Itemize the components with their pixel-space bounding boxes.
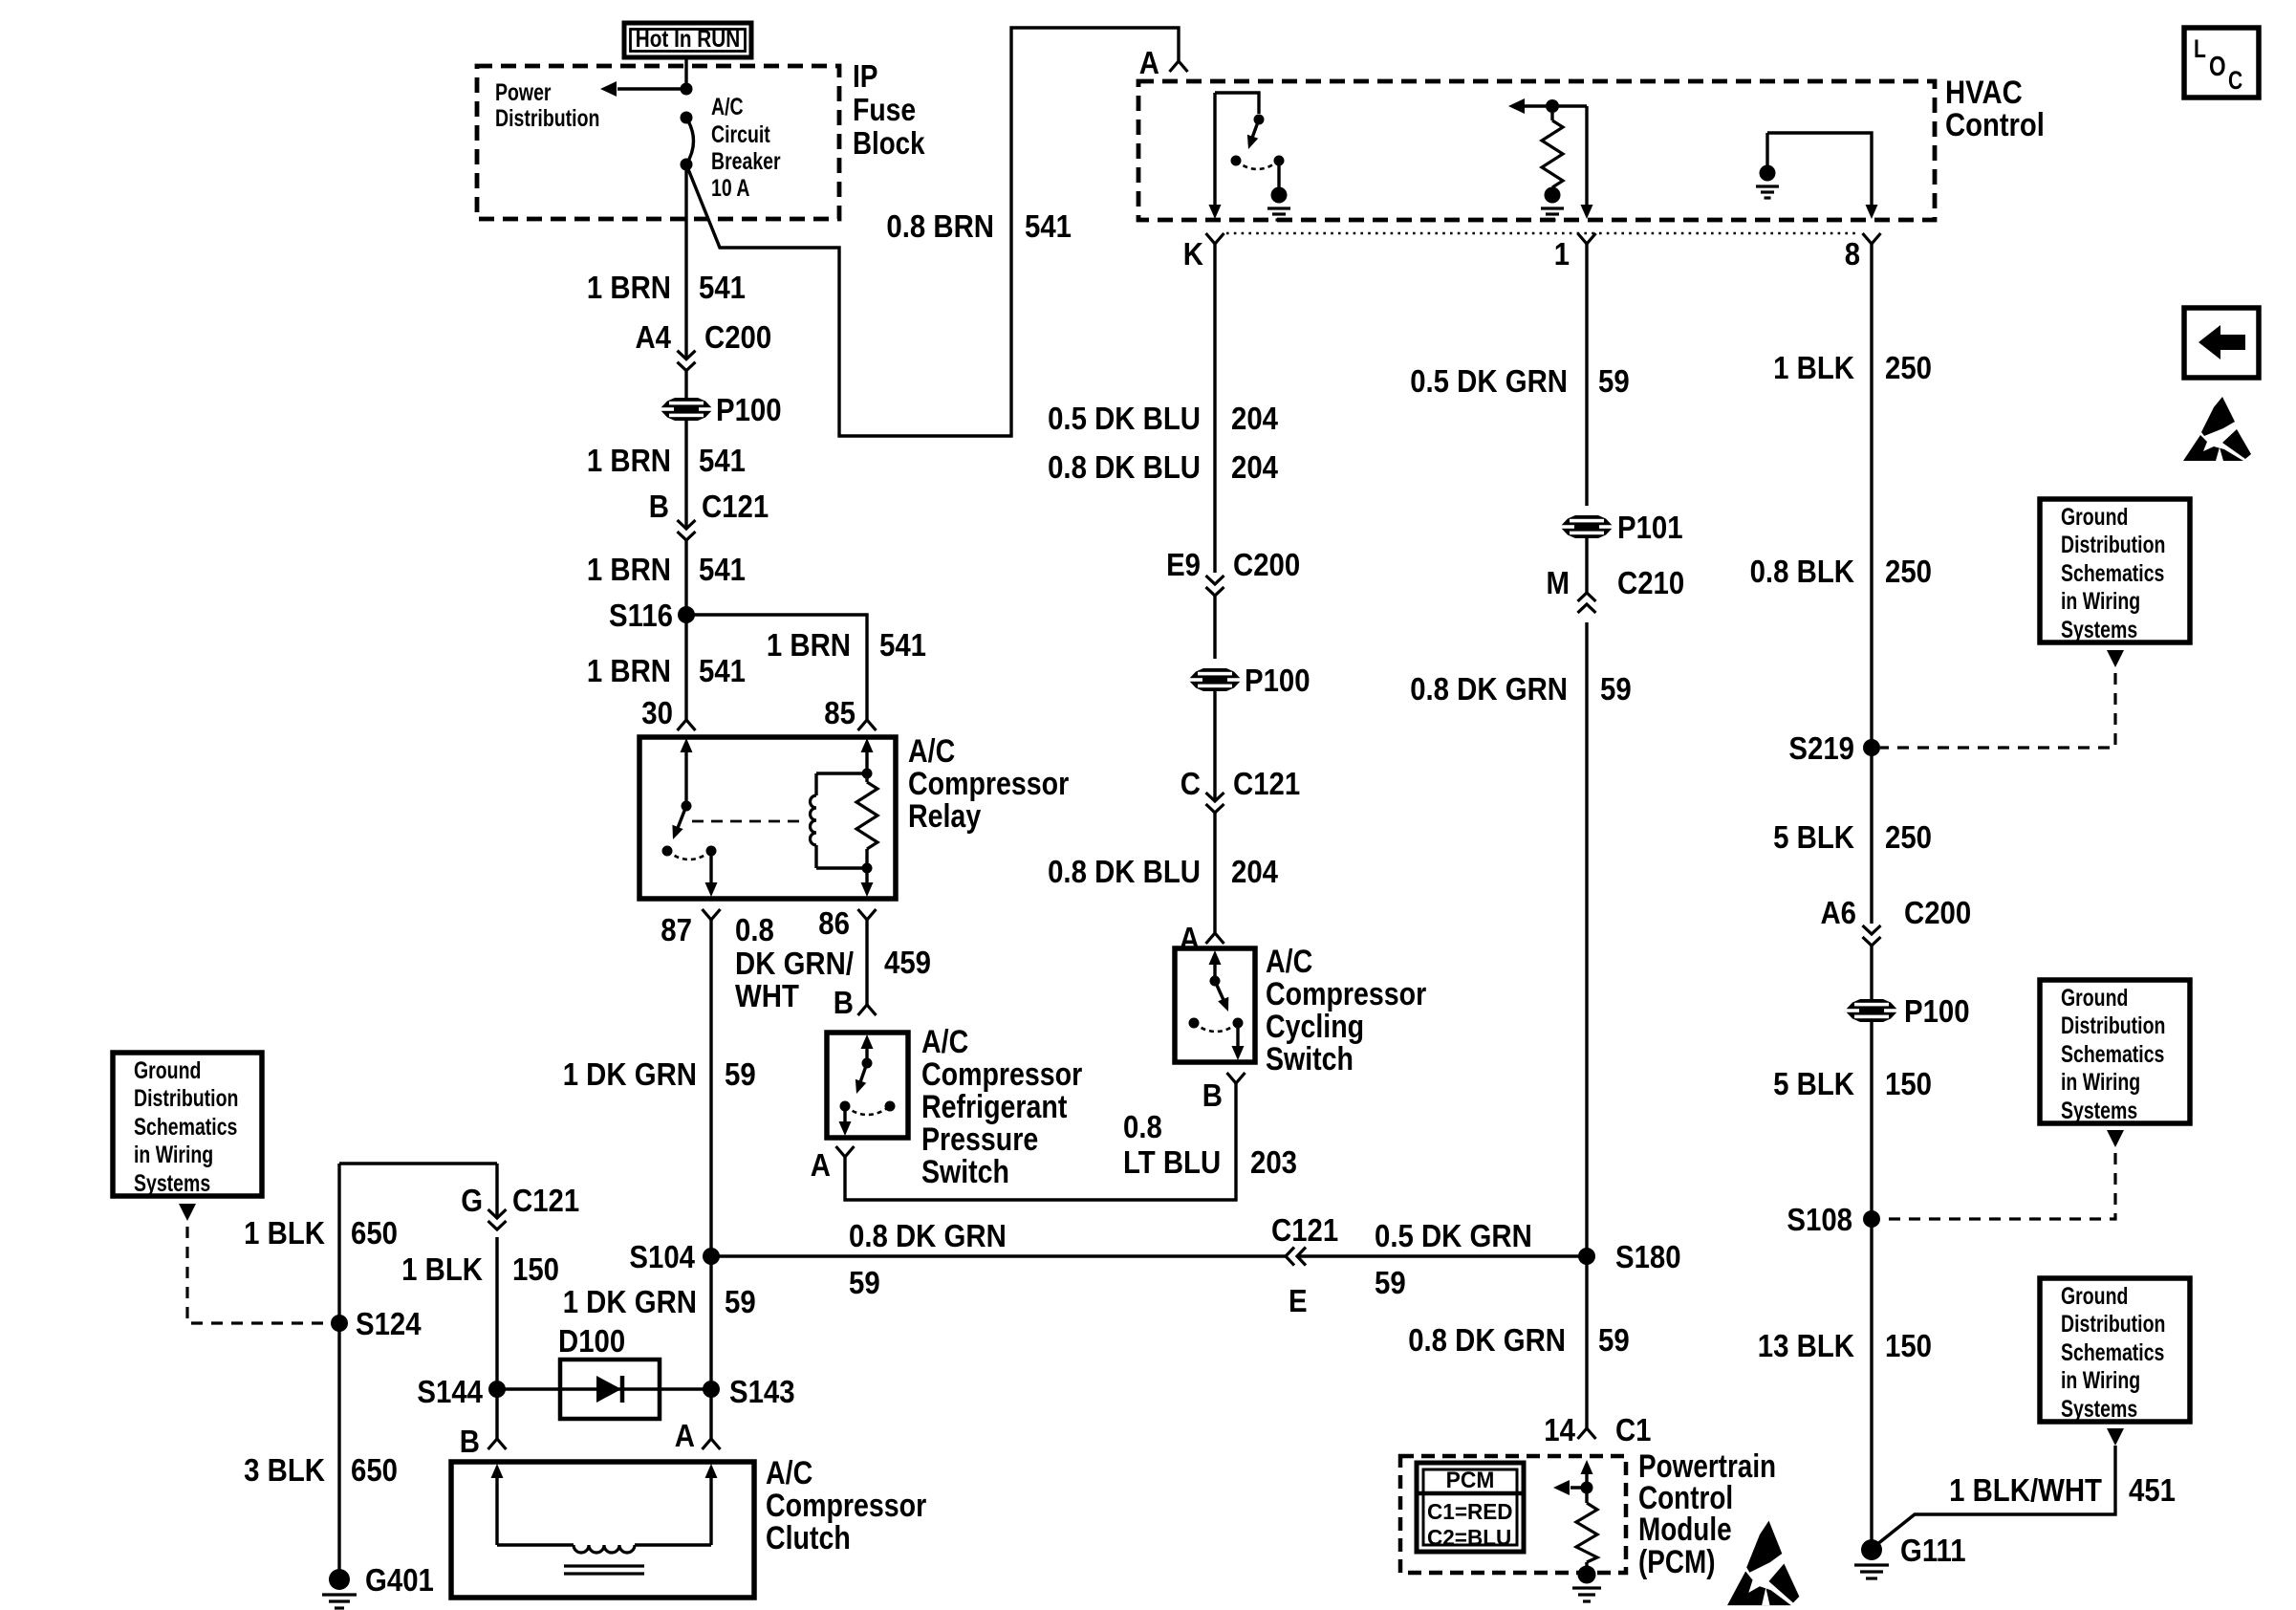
diode D100 symbol [596,1376,621,1403]
splice S143 [703,1381,720,1398]
svg-text:A/C: A/C [921,1024,968,1060]
svg-text:204: 204 [1231,401,1279,436]
splice S116 [678,606,695,623]
svg-text:in Wiring: in Wiring [2061,1069,2140,1096]
svg-text:150: 150 [1885,1328,1932,1363]
svg-text:P101: P101 [1617,510,1683,545]
svg-text:in Wiring: in Wiring [134,1142,213,1168]
PCM internal ground [1578,1566,1596,1584]
svg-text:250: 250 [1885,819,1932,855]
clutch internal: pin B lead [491,1464,504,1478]
svg-text:in Wiring: in Wiring [2061,1367,2140,1394]
wire: S144 to S143 through diode [497,1387,711,1390]
terminal: cycling switch pin B [1227,1073,1245,1083]
svg-text:C2=BLU: C2=BLU [1427,1525,1511,1550]
svg-text:(PCM): (PCM) [1638,1544,1716,1580]
svg-text:0.8 DK BLU: 0.8 DK BLU [1048,854,1201,889]
svg-text:C200: C200 [1233,547,1300,582]
svg-text:C121: C121 [512,1183,579,1218]
svg-text:C: C [2228,66,2242,95]
label box: Hot In RUN [624,23,751,57]
svg-text:Compressor: Compressor [766,1488,926,1524]
svg-text:A: A [811,1147,831,1183]
svg-text:G111: G111 [1900,1533,1966,1568]
svg-text:Systems: Systems [2061,1396,2137,1423]
svg-text:Schematics: Schematics [2061,1041,2164,1068]
splice S104 [703,1248,720,1265]
wire: 0.8 LT BLU 203 pressure switch A to cycling switch B [845,1083,1236,1200]
svg-text:0.5 DK BLU: 0.5 DK BLU [1048,401,1201,436]
svg-text:541: 541 [699,270,746,305]
relay internal: coil L1 [861,738,874,752]
HVAC internal: ground at pin 8 [1760,165,1776,182]
svg-text:204: 204 [1231,854,1279,889]
svg-text:WHT: WHT [735,978,799,1013]
svg-text:203: 203 [1250,1144,1297,1180]
wire: 0.8 DK GRN 59 down to S180 [1585,622,1588,1256]
svg-text:Pressure: Pressure [921,1121,1038,1158]
svg-text:C: C [1180,766,1201,801]
relay internal: pin 30 lead [681,738,693,752]
svg-text:0.8 DK BLU: 0.8 DK BLU [1048,449,1201,485]
terminal: relay pin 87 [703,909,721,920]
wire: HVAC pin K down to cycling switch A [1213,244,1216,573]
wire: arrow to Power Distribution [617,87,686,90]
HVAC internal ground symbol [1271,187,1288,204]
svg-text:B: B [460,1424,480,1459]
svg-text:0.8 BLK: 0.8 BLK [1750,554,1855,589]
relay internal: switch blade [678,806,686,828]
terminal: HVAC pin K [1206,233,1224,244]
svg-text:Compressor: Compressor [921,1056,1082,1093]
svg-text:C121: C121 [702,489,769,524]
svg-text:Ground: Ground [2061,985,2128,1012]
svg-text:C1: C1 [1615,1412,1652,1447]
splice S108 [1863,1210,1880,1228]
IP Fuse Block dashed box [477,66,839,219]
wire: HVAC pin 1 to P101 [1585,244,1588,506]
relay internal: contact gap dashed arc [667,851,711,859]
svg-text:S104: S104 [629,1239,695,1274]
svg-text:Ground: Ground [2061,1283,2128,1310]
svg-text:250: 250 [1885,350,1932,385]
wire: 1 BRN 541 to splice S116 [684,540,687,615]
pressure switch internal: dashed contact arc [845,1106,890,1115]
svg-text:0.8: 0.8 [1123,1109,1162,1144]
wire: S104 to S180 0.8/0.5 DK GRN 59 [711,1254,1286,1257]
svg-text:1 BRN: 1 BRN [587,270,671,305]
ESD symbol at PCM [1727,1521,1799,1605]
right Ground Distribution box 1 [2040,499,2190,642]
wire: Hot In RUN feed into IP fuse block [684,57,687,89]
right Ground Distribution box 2 [2040,980,2190,1123]
wire: S116 to relay pin 30 [684,615,687,720]
svg-text:S143: S143 [729,1374,795,1409]
svg-text:Circuit: Circuit [711,121,770,148]
svg-text:B: B [834,985,854,1020]
svg-text:Fuse: Fuse [853,92,916,127]
svg-text:Power: Power [495,79,552,106]
svg-text:Schematics: Schematics [2061,560,2164,587]
wire: 1 BRN 541 below P100 [684,421,687,529]
wire: HVAC pin 8 ground path down [1870,244,1873,924]
svg-text:S124: S124 [356,1306,422,1341]
right Ground Distribution box 3 [2040,1278,2190,1422]
clutch internal: pin A lead [705,1464,718,1478]
svg-text:LT BLU: LT BLU [1123,1144,1221,1180]
terminal: pressure switch pin B [858,1005,877,1015]
svg-text:1 BLK/WHT: 1 BLK/WHT [1949,1472,2102,1508]
cycling switch internal: pin A lead [1209,950,1222,965]
svg-text:14: 14 [1544,1412,1575,1447]
pressure switch internal: pin A lead [843,1111,846,1124]
PCM internal: input lead [1581,1460,1593,1474]
wire: 1 BRN 541 down from breaker [684,164,687,359]
clutch internal: coil L2 [497,1543,574,1546]
cycling switch SW2 A/C Compressor Cycling Switch box [1175,948,1255,1062]
ground G401 [329,1569,350,1590]
svg-text:Block: Block [853,125,925,161]
wire: ground path clutch B up through C121 G [495,1237,498,1439]
ESD symbol icon top right [2183,397,2251,461]
wire: 459 from relay 86 to pressure switch B [865,920,868,1005]
svg-text:Switch: Switch [921,1154,1009,1190]
svg-text:59: 59 [725,1056,756,1092]
terminal: cycling switch pin A [1206,933,1224,944]
svg-text:P100: P100 [1904,993,1970,1029]
node: junction at power distribution tap [681,83,693,96]
svg-text:K: K [1183,236,1203,272]
HVAC Control dashed box [1138,81,1935,220]
svg-text:459: 459 [884,945,931,980]
svg-text:Module: Module [1638,1512,1732,1548]
svg-text:Distribution: Distribution [2061,1311,2165,1338]
svg-text:Distribution: Distribution [495,105,599,132]
svg-text:S108: S108 [1787,1202,1852,1237]
terminal: clutch pin B [488,1439,507,1449]
LOC page icon [2184,28,2259,98]
svg-text:Control: Control [1945,107,2045,143]
relay internal: pin 86 lead [865,868,868,885]
cycling switch internal: dashed contact arc [1194,1023,1238,1032]
svg-text:59: 59 [849,1265,880,1300]
svg-text:541: 541 [699,653,746,688]
svg-text:1 DK GRN: 1 DK GRN [563,1056,697,1092]
HVAC internal ground symbol 2 [1545,187,1561,204]
svg-text:Switch: Switch [1266,1041,1354,1077]
svg-text:3 BLK: 3 BLK [244,1452,325,1488]
svg-text:C200: C200 [704,319,771,355]
svg-text:541: 541 [699,552,746,587]
clutch internal: core bars [564,1564,644,1567]
svg-text:Distribution: Distribution [2061,1012,2165,1039]
svg-text:59: 59 [1375,1265,1406,1300]
svg-text:451: 451 [2129,1472,2176,1508]
PCM connector legend box [1417,1463,1524,1552]
svg-text:59: 59 [1598,1322,1630,1358]
svg-text:O: O [2209,52,2226,82]
svg-text:HVAC: HVAC [1945,75,2023,111]
svg-text:G401: G401 [365,1562,434,1598]
HVAC internal: pin K lead [1213,93,1216,205]
svg-text:D100: D100 [558,1323,625,1359]
svg-text:1 DK GRN: 1 DK GRN [563,1284,697,1319]
terminal: relay pin 85 [858,720,877,730]
connector pass-through P100 second [1188,668,1242,691]
svg-text:85: 85 [824,695,856,730]
wire: P101 to C210 [1585,538,1588,593]
svg-text:Cycling: Cycling [1266,1009,1364,1045]
svg-text:204: 204 [1231,449,1279,485]
connector pass-through P101 [1560,515,1614,538]
svg-text:Ground: Ground [2061,504,2128,531]
svg-text:Schematics: Schematics [134,1114,237,1141]
splice S180 [1578,1248,1595,1265]
HVAC internal: blower resistor feed arrow [1508,98,1525,114]
svg-text:1 BRN: 1 BRN [767,627,851,663]
svg-text:Compressor: Compressor [1266,976,1426,1012]
svg-text:1 BLK: 1 BLK [1773,350,1854,385]
svg-text:150: 150 [1885,1066,1932,1101]
svg-text:Clutch: Clutch [766,1520,851,1556]
dashed reference link to S124 [187,1227,331,1323]
terminal: relay pin 30 [678,720,696,730]
connector pass-through P100 third [1845,999,1898,1022]
wire: 0.8 BRN 541 from breaker to HVAC pin A [686,28,1179,436]
svg-text:S116: S116 [609,598,673,633]
cycling switch internal: pin B lead [1236,1028,1239,1049]
PCM internal: resistor R3 [1576,1503,1597,1562]
wire: relay 87 down through S104 S143 to clutch A [709,920,712,1439]
svg-text:Systems: Systems [134,1170,210,1197]
HVAC internal: dashed contact arc [1236,161,1279,169]
svg-text:0.8 DK GRN: 0.8 DK GRN [1410,671,1568,707]
wire: S116 branch to relay pin 85 [686,615,867,720]
svg-text:Distribution: Distribution [2061,532,2165,558]
svg-text:250: 250 [1885,554,1932,589]
svg-text:A4: A4 [636,319,672,355]
dashed reference link to S108 [1880,1153,2115,1219]
svg-text:87: 87 [661,912,692,947]
connector pass-through P100 [660,398,713,421]
splice S124 [331,1315,348,1332]
svg-text:150: 150 [512,1251,559,1287]
PCM internal: arrow to logic [1570,1486,1587,1489]
PCM dashed box Powertrain Control Module [1400,1456,1626,1573]
HVAC internal: switch blade [1252,120,1259,138]
svg-text:5 BLK: 5 BLK [1773,1066,1854,1101]
svg-text:S144: S144 [417,1374,483,1409]
splice S144 [488,1381,506,1398]
svg-text:Refrigerant: Refrigerant [921,1089,1067,1125]
terminal: HVAC pin 1 [1578,233,1596,244]
svg-text:E: E [1289,1283,1308,1318]
svg-text:B: B [1202,1077,1223,1113]
svg-text:59: 59 [725,1284,756,1319]
svg-text:0.8: 0.8 [735,912,774,947]
splice S219 [1863,739,1880,756]
svg-text:C1=RED: C1=RED [1427,1499,1513,1524]
svg-text:A/C: A/C [1266,944,1312,980]
svg-text:P100: P100 [716,392,782,427]
svg-text:8: 8 [1845,236,1860,272]
reference triangle 1 [2107,650,2124,667]
svg-text:G: G [461,1183,483,1218]
svg-text:0.8 BRN: 0.8 BRN [886,208,994,244]
svg-text:13 BLK: 13 BLK [1758,1328,1854,1363]
relay K1 A/C Compressor Relay box [639,737,896,899]
svg-text:IP: IP [853,58,878,94]
clutch M1 A/C Compressor Clutch box [451,1462,754,1598]
svg-text:Compressor: Compressor [908,766,1069,802]
circuit breaker CB1 A/C Circuit Breaker 10 A [681,112,693,124]
cycling switch internal: blade [1215,981,1224,1000]
svg-text:541: 541 [879,627,926,663]
svg-text:541: 541 [1025,208,1072,244]
svg-text:0.8 DK GRN: 0.8 DK GRN [849,1218,1007,1253]
svg-text:S180: S180 [1615,1239,1681,1274]
pressure switch internal: pin B lead [861,1034,874,1049]
svg-text:1 BRN: 1 BRN [587,443,671,478]
svg-text:Ground: Ground [134,1057,201,1084]
svg-text:A/C: A/C [766,1455,812,1491]
ground G111 [1861,1539,1882,1560]
relay internal: resistor R1 across coil [865,773,868,782]
svg-text:Distribution: Distribution [134,1085,238,1112]
svg-text:M: M [1547,565,1570,600]
HVAC internal: switch feed [1215,93,1259,114]
wire: 5 BLK 150 to S108 and G111 [1870,1022,1873,1550]
svg-text:E9: E9 [1166,547,1201,582]
svg-text:Relay: Relay [908,798,981,835]
svg-text:DK GRN/: DK GRN/ [735,946,854,981]
svg-text:0.8 DK GRN: 0.8 DK GRN [1408,1322,1566,1358]
svg-text:Schematics: Schematics [2061,1339,2164,1366]
svg-text:650: 650 [351,1452,398,1488]
svg-text:C210: C210 [1617,565,1684,600]
svg-text:5 BLK: 5 BLK [1773,819,1854,855]
svg-text:Systems: Systems [2061,1098,2137,1124]
svg-text:C121: C121 [1271,1212,1338,1248]
wire: jumper to S124 column [339,1162,497,1164]
svg-text:1 BLK: 1 BLK [401,1251,483,1287]
reference triangle 2 [2107,1130,2124,1147]
wire: 1 BRN 541 to P100 [684,371,687,398]
terminal: HVAC pin A [1170,61,1188,72]
HVAC internal: pin 1 lead [1585,106,1588,205]
svg-text:L: L [2194,34,2206,63]
svg-text:1 BRN: 1 BRN [587,552,671,587]
svg-text:86: 86 [818,905,850,941]
svg-text:1: 1 [1554,236,1570,272]
svg-text:A/C: A/C [908,733,955,770]
back arrow icon [2184,308,2259,378]
svg-text:A: A [1139,45,1159,80]
svg-text:30: 30 [641,695,673,730]
relay internal: actuation dashed link [692,820,801,823]
svg-text:B: B [649,489,669,524]
svg-text:A6: A6 [1821,895,1857,930]
svg-text:Systems: Systems [2061,617,2137,643]
svg-text:A/C: A/C [711,94,744,120]
reference triangle 3 [2107,1428,2124,1446]
svg-text:0.5 DK GRN: 0.5 DK GRN [1410,363,1568,399]
dashed reference link to S219 [1880,673,2115,748]
pressure switch SW1 A/C Compressor Refrigerant Pressure Switch box [827,1033,908,1138]
svg-text:in Wiring: in Wiring [2061,588,2140,615]
svg-text:PCM: PCM [1446,1468,1495,1493]
HVAC internal: ground lead [1277,165,1280,187]
svg-text:Hot In RUN: Hot In RUN [636,26,741,53]
pressure switch internal: blade [860,1063,867,1082]
relay internal: pin 87 lead [709,856,712,885]
svg-text:0.5 DK GRN: 0.5 DK GRN [1375,1218,1532,1253]
reference triangle [179,1204,196,1221]
terminal: pressure switch pin A [836,1146,855,1157]
terminal: PCM pin 14 [1578,1428,1596,1439]
svg-text:C200: C200 [1904,895,1971,930]
terminal: clutch pin A [703,1439,721,1449]
svg-text:P100: P100 [1245,663,1310,698]
svg-text:10 A: 10 A [711,175,750,202]
HVAC connector face dotted line [1226,232,1859,235]
svg-text:C121: C121 [1233,766,1300,801]
svg-text:A: A [675,1418,695,1453]
svg-text:Breaker: Breaker [711,148,781,175]
wire: 1 BLK/WHT 451 from G111 [1876,1446,2115,1545]
svg-text:1 BLK: 1 BLK [244,1215,325,1251]
svg-text:59: 59 [1598,363,1630,399]
connector C121 pin E inline [1286,1248,1294,1266]
svg-text:1 BRN: 1 BRN [587,653,671,688]
HVAC internal: resistor R2 [1550,106,1553,120]
terminal: relay pin 86 [858,909,877,920]
svg-text:650: 650 [351,1215,398,1251]
left Ground Distribution reference box [113,1053,262,1196]
terminal: HVAC pin 8 [1863,233,1881,244]
svg-text:541: 541 [699,443,746,478]
svg-text:59: 59 [1600,671,1632,707]
svg-text:S219: S219 [1788,730,1854,766]
